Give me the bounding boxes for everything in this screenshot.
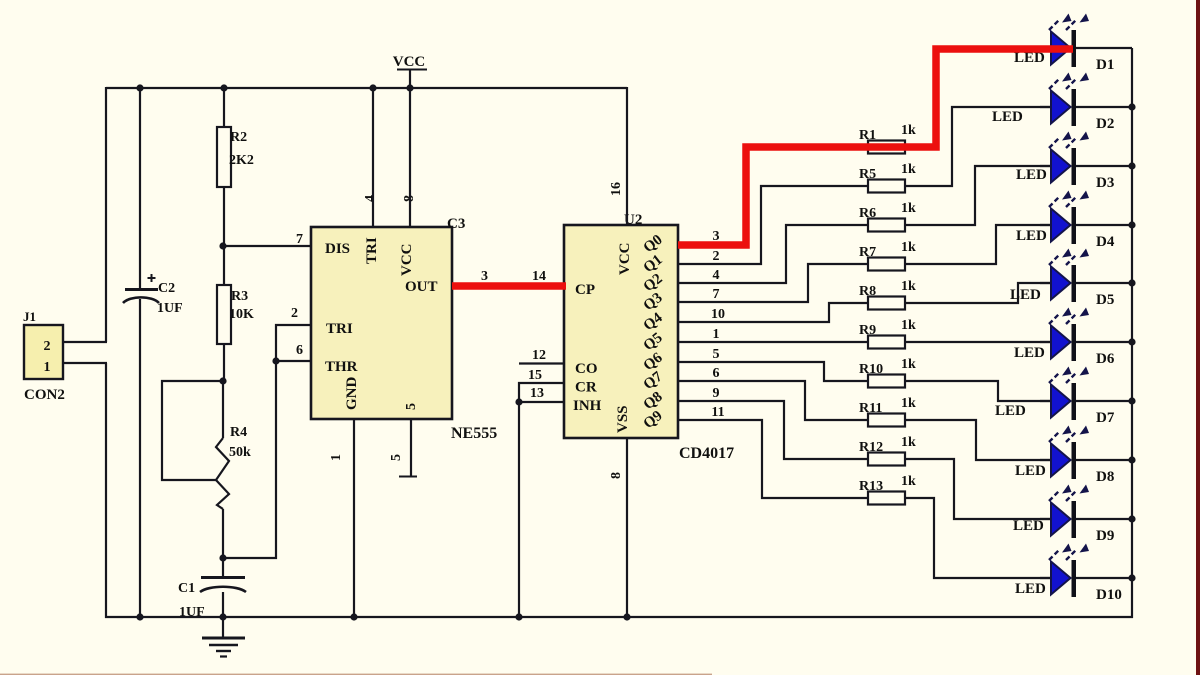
svg-text:D9: D9 xyxy=(1096,528,1114,544)
svg-text:R5: R5 xyxy=(859,167,876,182)
wire D1 cathode to right bus xyxy=(1076,47,1132,49)
svg-text:CD4017: CD4017 xyxy=(679,445,734,462)
pin 13 label xyxy=(530,386,544,401)
wire Q1 to R5 xyxy=(678,186,868,264)
wire R6 to D3 xyxy=(905,166,1051,225)
node DIS junction xyxy=(219,242,226,249)
wire R3 bottom xyxy=(223,343,225,382)
svg-text:THR: THR xyxy=(325,359,358,375)
svg-text:LED: LED xyxy=(1016,228,1047,244)
svg-text:1k: 1k xyxy=(901,240,916,255)
page edge bottom faint line xyxy=(0,674,712,675)
svg-text:CR: CR xyxy=(575,380,597,396)
svg-text:LED: LED xyxy=(1016,167,1047,183)
node bottom bus C1-ground xyxy=(219,613,226,620)
svg-text:7: 7 xyxy=(296,232,303,247)
chip U2 CD4017 counter xyxy=(564,212,734,462)
svg-text:C3: C3 xyxy=(447,216,465,232)
LED D9 xyxy=(1013,485,1114,545)
svg-text:1k: 1k xyxy=(901,201,916,216)
pin 6 label (Q7) xyxy=(713,366,720,381)
resistor R1 1k xyxy=(859,123,916,154)
svg-text:1k: 1k xyxy=(901,123,916,138)
pin 4 label xyxy=(363,195,378,202)
pin name Q4 xyxy=(641,309,666,334)
svg-text:D8: D8 xyxy=(1096,469,1114,485)
wire C2 branch lower xyxy=(139,299,141,617)
svg-text:D3: D3 xyxy=(1096,175,1114,191)
page edge maroon right border xyxy=(1196,0,1200,675)
svg-text:R10: R10 xyxy=(859,362,883,377)
LED D2 xyxy=(992,73,1114,133)
node right bus D2 xyxy=(1128,103,1135,110)
wire left rail upper (J1 pin2 to VCC bus) xyxy=(105,87,107,342)
svg-text:5: 5 xyxy=(389,454,404,461)
svg-text:VCC: VCC xyxy=(617,243,633,276)
svg-text:9: 9 xyxy=(713,386,720,401)
svg-text:12: 12 xyxy=(532,348,546,363)
LED D10 xyxy=(1015,544,1122,604)
wire VCC top bus xyxy=(106,87,627,89)
svg-text:7: 7 xyxy=(713,287,720,302)
svg-text:2K2: 2K2 xyxy=(229,153,254,168)
svg-text:R1: R1 xyxy=(859,128,876,143)
wire TRI pin 2 xyxy=(276,325,311,361)
wire 555 pin 8 to VCC bus xyxy=(409,88,411,227)
svg-text:1: 1 xyxy=(713,327,720,342)
pin 14 label xyxy=(532,269,546,284)
node right bus D7 xyxy=(1128,397,1135,404)
wire Q7 to R11 xyxy=(678,381,868,420)
svg-text:14: 14 xyxy=(532,269,546,284)
LED D6 xyxy=(1014,308,1115,368)
wire 555 pin 5 stub xyxy=(399,419,417,477)
wire R2 to R3 xyxy=(223,186,225,286)
node right bus D8 xyxy=(1128,456,1135,463)
svg-text:R11: R11 xyxy=(859,401,882,416)
svg-text:6: 6 xyxy=(713,366,720,381)
svg-text:1k: 1k xyxy=(901,318,916,333)
pin 1 label (Q5) xyxy=(713,327,720,342)
svg-text:4: 4 xyxy=(713,268,720,283)
svg-text:LED: LED xyxy=(1015,581,1046,597)
pin 3 label (Q0) xyxy=(713,229,720,244)
svg-text:2: 2 xyxy=(713,249,720,264)
wire DIS pin 7 xyxy=(222,245,311,247)
pin name Q1 xyxy=(641,252,666,276)
svg-text:LED: LED xyxy=(1013,518,1044,534)
svg-text:LED: LED xyxy=(1014,345,1045,361)
LED D1 xyxy=(1014,14,1114,74)
wire Q4 to R8 xyxy=(678,303,868,322)
svg-text:NE555: NE555 xyxy=(451,425,497,442)
svg-text:2: 2 xyxy=(44,339,51,354)
svg-text:1UF: 1UF xyxy=(179,605,205,620)
svg-text:D4: D4 xyxy=(1096,234,1115,250)
pin 16 label xyxy=(609,182,624,196)
wire Q9 to R13 xyxy=(678,420,868,498)
svg-text:R2: R2 xyxy=(230,130,247,145)
pin 5 label xyxy=(389,454,404,461)
svg-text:CP: CP xyxy=(575,282,595,298)
pin name Q8 xyxy=(641,389,666,413)
wire THR node down to R4-C1 node xyxy=(223,361,276,558)
wire D2 cathode to right bus xyxy=(1076,106,1132,108)
pin 4 label (Q2) xyxy=(713,268,720,283)
pin 5 label (Q6) xyxy=(713,347,720,362)
svg-text:8: 8 xyxy=(609,472,624,479)
capacitor C1 1UF xyxy=(178,558,246,620)
wire R12 to D9 xyxy=(905,459,1051,519)
svg-text:R9: R9 xyxy=(859,323,876,338)
resistor R3 10K xyxy=(217,285,254,344)
wire D7 cathode to right bus xyxy=(1076,400,1132,402)
pin 2 label xyxy=(291,306,298,321)
pin 8 label (VSS) xyxy=(609,472,624,479)
wire left rail lower (J1 pin1 to ground bus) xyxy=(105,363,107,618)
node R3-R4 junction xyxy=(219,377,226,384)
wire right cathode bus xyxy=(1131,48,1133,618)
node right bus D5 xyxy=(1128,279,1135,286)
svg-text:10: 10 xyxy=(711,307,725,322)
svg-text:1UF: 1UF xyxy=(157,301,183,316)
svg-text:11: 11 xyxy=(711,405,724,420)
ground symbol xyxy=(202,617,245,657)
svg-text:1k: 1k xyxy=(901,474,916,489)
svg-text:TRI: TRI xyxy=(326,321,353,337)
svg-text:D6: D6 xyxy=(1096,351,1115,367)
svg-text:GND: GND xyxy=(344,377,360,411)
svg-text:1: 1 xyxy=(44,360,51,375)
wire INH pin 13 xyxy=(519,401,564,403)
wire R11 to D8 xyxy=(905,420,1051,460)
svg-text:TRI: TRI xyxy=(364,237,380,264)
svg-text:6: 6 xyxy=(296,343,303,358)
wire 555 pin 4 to VCC bus xyxy=(372,88,374,227)
node bottom bus 555 GND xyxy=(350,613,357,620)
wire Q3 to R7 xyxy=(678,264,868,302)
svg-text:1k: 1k xyxy=(901,162,916,177)
pin 15 label xyxy=(528,368,542,383)
pin 12 label xyxy=(532,348,546,363)
wire R4 bypass xyxy=(162,381,222,480)
LED D4 xyxy=(1016,191,1115,251)
svg-text:D7: D7 xyxy=(1096,410,1115,426)
pin 8 label xyxy=(402,195,417,202)
resistor R9 1k xyxy=(859,318,916,349)
svg-text:OUT: OUT xyxy=(405,279,438,295)
svg-text:VCC: VCC xyxy=(393,54,426,70)
wire D8 cathode to right bus xyxy=(1076,459,1132,461)
wire THR pin 6 xyxy=(276,360,311,362)
resistor R2 2K2 xyxy=(217,127,254,187)
LED D3 xyxy=(1016,132,1114,192)
svg-text:C2: C2 xyxy=(158,281,175,296)
resistor R13 1k xyxy=(859,474,916,505)
node right bus D4 xyxy=(1128,221,1135,228)
wire bottom ground bus xyxy=(105,616,1133,618)
connector J1 CON2 xyxy=(23,309,65,403)
pin name Q2 xyxy=(641,271,666,295)
node right bus D10 xyxy=(1128,574,1135,581)
wire 4017 pin 16 to VCC bus xyxy=(626,87,628,225)
svg-text:D1: D1 xyxy=(1096,57,1114,73)
resistor R8 1k xyxy=(859,279,916,310)
pin 2 label (Q1) xyxy=(713,249,720,264)
capacitor C2 1UF polarized xyxy=(123,274,183,316)
svg-text:1: 1 xyxy=(329,454,344,461)
svg-text:R3: R3 xyxy=(231,289,248,304)
node right bus D3 xyxy=(1128,162,1135,169)
wire R10 to D7 xyxy=(905,381,1051,401)
wire D6 cathode to right bus xyxy=(1076,341,1132,343)
wire J1 pin 1 xyxy=(63,362,107,364)
pin 9 label (Q8) xyxy=(713,386,720,401)
svg-text:5: 5 xyxy=(713,347,720,362)
wire 4017 VSS pin 8 to ground bus xyxy=(626,438,628,617)
pin name Q0 xyxy=(641,232,666,256)
svg-text:4: 4 xyxy=(363,195,378,202)
resistor R5 1k xyxy=(859,162,916,193)
wire VCC bus to R2 xyxy=(223,88,225,128)
wire CO pin 12 xyxy=(519,362,564,364)
svg-text:1k: 1k xyxy=(901,396,916,411)
node INH junction xyxy=(515,398,522,405)
svg-text:CON2: CON2 xyxy=(24,387,65,403)
svg-text:1k: 1k xyxy=(901,435,916,450)
pin 6 label xyxy=(296,343,303,358)
pin name Q9 xyxy=(641,408,666,432)
node top bus R2 xyxy=(220,84,227,91)
node bottom bus INH xyxy=(515,613,522,620)
resistor R6 1k xyxy=(859,201,916,232)
svg-text:CO: CO xyxy=(575,361,598,377)
svg-text:R7: R7 xyxy=(859,245,876,260)
wire J1 pin 2 xyxy=(63,341,107,343)
pin 11 label (Q9) xyxy=(711,405,724,420)
op-amp U1 NE555 timer xyxy=(311,216,497,442)
svg-text:LED: LED xyxy=(1015,463,1046,479)
node bottom bus 4017 VSS xyxy=(623,613,630,620)
wire R7 to D4 xyxy=(905,225,1051,264)
pin name Q5 xyxy=(641,330,666,354)
svg-text:LED: LED xyxy=(992,109,1023,125)
svg-text:R13: R13 xyxy=(859,479,883,494)
svg-text:R12: R12 xyxy=(859,440,883,455)
node top bus 555 pin8 xyxy=(406,84,413,91)
svg-text:R4: R4 xyxy=(230,425,247,440)
resistor R12 1k xyxy=(859,435,916,466)
wire INH node to ground bus xyxy=(518,402,520,617)
svg-text:2: 2 xyxy=(291,306,298,321)
pin 7 label (Q3) xyxy=(713,287,720,302)
node THR junction xyxy=(272,357,279,364)
svg-text:50k: 50k xyxy=(229,445,251,460)
wire Q8 to R12 xyxy=(678,401,868,459)
LED D5 xyxy=(1010,249,1114,309)
resistor R10 1k xyxy=(859,357,916,388)
svg-text:LED: LED xyxy=(1010,287,1041,303)
wire R9 to D6 xyxy=(905,341,1051,343)
pin 1 label xyxy=(329,454,344,461)
resistor R7 1k xyxy=(859,240,916,271)
wire R8 to D5 xyxy=(905,283,1051,303)
pin name Q7 xyxy=(641,368,666,393)
svg-text:D2: D2 xyxy=(1096,116,1114,132)
pin 10 label (Q4) xyxy=(711,307,725,322)
node right bus D9 xyxy=(1128,515,1135,522)
resistor R11 1k xyxy=(859,396,916,427)
svg-text:J1: J1 xyxy=(23,309,36,324)
svg-text:5: 5 xyxy=(404,403,419,410)
svg-text:VSS: VSS xyxy=(615,405,631,433)
svg-text:1k: 1k xyxy=(901,357,916,372)
wire D3 cathode to right bus xyxy=(1076,165,1132,167)
wire Q2 to R6 xyxy=(678,225,868,283)
svg-text:DIS: DIS xyxy=(325,241,350,257)
wire D10 cathode to right bus xyxy=(1076,577,1132,579)
pin 7 label xyxy=(296,232,303,247)
wire D9 cathode to right bus xyxy=(1076,518,1132,520)
pin name Q6 xyxy=(641,349,666,374)
node right bus D6 xyxy=(1128,338,1135,345)
wire R5 to D2 xyxy=(905,107,1051,186)
wire 555 GND pin 1 to ground bus xyxy=(353,419,355,617)
node bottom bus C2 xyxy=(136,613,143,620)
svg-text:INH: INH xyxy=(573,398,602,414)
resistor R4 50k variable xyxy=(216,381,251,558)
svg-text:1k: 1k xyxy=(901,279,916,294)
svg-text:D5: D5 xyxy=(1096,292,1114,308)
svg-text:C1: C1 xyxy=(178,581,195,596)
svg-text:D10: D10 xyxy=(1096,587,1122,603)
node top bus 555 pin4 xyxy=(369,84,376,91)
pin name Q3 xyxy=(641,290,666,314)
wire R13 to D10 xyxy=(905,498,1051,578)
node top bus C2 xyxy=(136,84,143,91)
svg-text:10K: 10K xyxy=(229,307,254,322)
LED D8 xyxy=(1015,426,1114,486)
LED D7 xyxy=(995,367,1115,427)
svg-text:R8: R8 xyxy=(859,284,876,299)
svg-text:LED: LED xyxy=(995,403,1026,419)
wire CR pin 15 xyxy=(519,383,564,402)
node R4-C1 junction xyxy=(219,554,226,561)
wire D5 cathode to right bus xyxy=(1076,282,1132,284)
svg-text:16: 16 xyxy=(609,182,624,196)
svg-text:15: 15 xyxy=(528,368,542,383)
svg-text:R6: R6 xyxy=(859,206,876,221)
wire D4 cathode to right bus xyxy=(1076,224,1132,226)
pin 3 label xyxy=(481,269,488,284)
wire Q0 pin3 to D1 (red) xyxy=(678,49,1073,245)
wire OUT pin3 to CP pin14 (red) xyxy=(452,282,566,290)
svg-text:3: 3 xyxy=(481,269,488,284)
svg-text:VCC: VCC xyxy=(399,244,415,277)
wire Q6 to R10 xyxy=(678,362,868,381)
power symbol VCC xyxy=(393,54,427,88)
wire C2 branch upper xyxy=(139,88,141,289)
wire Q5 to R9 xyxy=(678,341,868,343)
svg-text:13: 13 xyxy=(530,386,544,401)
